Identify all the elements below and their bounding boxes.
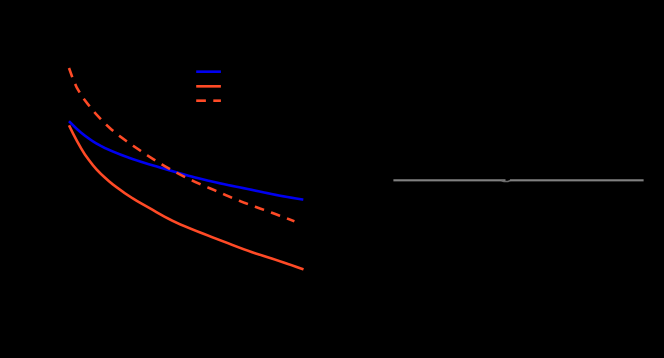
gray horizontal line (right subplot) right segment bbox=[510, 179, 644, 181]
legend sample: red dashed line bbox=[196, 99, 221, 102]
legend sample: red solid line bbox=[196, 85, 221, 88]
red solid curve (left subplot) bbox=[69, 125, 304, 269]
gray horizontal line (right subplot) left segment bbox=[393, 179, 505, 181]
legend sample: blue solid line bbox=[196, 70, 221, 73]
gray line dip segment bbox=[502, 180, 511, 181]
blue solid curve (left subplot) bbox=[69, 121, 303, 199]
red dashed curve (left subplot) bbox=[69, 68, 294, 221]
